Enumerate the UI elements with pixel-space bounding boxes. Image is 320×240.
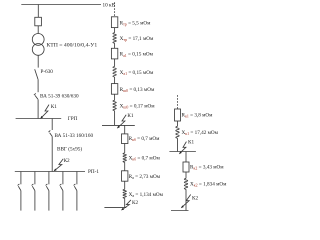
svg-text:ГРП: ГРП (68, 116, 78, 122)
svg-text:КТП = 400/10/0,4-У1: КТП = 400/10/0,4-У1 (47, 43, 98, 49)
svg-text:ВВГ (5х95): ВВГ (5х95) (57, 146, 82, 153)
svg-text:Rа = 2,73 мОм: Rа = 2,73 мОм (129, 174, 161, 180)
svg-text:РП-1: РП-1 (88, 169, 99, 175)
svg-text:К2: К2 (132, 200, 138, 206)
svg-text:10 кВ: 10 кВ (103, 3, 116, 9)
svg-text:ВА 51-39 630/630: ВА 51-39 630/630 (40, 94, 79, 100)
svg-text:К2: К2 (64, 158, 70, 164)
svg-text:ВА 51-33 160/160: ВА 51-33 160/160 (55, 133, 94, 139)
svg-text:К2: К2 (192, 196, 198, 202)
svg-text:К1: К1 (51, 104, 57, 110)
svg-text:К1: К1 (188, 140, 194, 146)
svg-text:Р-630: Р-630 (41, 69, 54, 75)
svg-text:К1: К1 (127, 113, 133, 119)
svg-text:Xа = 1,134 мОм: Xа = 1,134 мОм (129, 192, 164, 198)
